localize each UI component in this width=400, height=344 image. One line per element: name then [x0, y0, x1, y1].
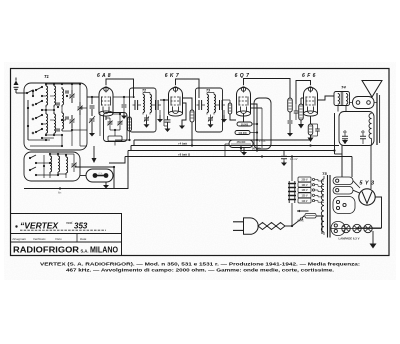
title row fields: [13, 237, 87, 241]
bus left staircase: [109, 146, 131, 164]
rectifier 5Y3: [359, 181, 375, 206]
T2 coupling wires: [113, 96, 135, 119]
svg-text:RADIOFRIGOR: RADIOFRIGOR: [13, 246, 79, 255]
6Q7 diode wires: [251, 104, 263, 148]
gang wire left: [80, 175, 86, 177]
osc box wiring: [36, 153, 77, 178]
svg-text:Disegnato: Disegnato: [13, 237, 27, 241]
antenna A1: [14, 78, 29, 95]
mains cord: [258, 223, 285, 230]
cord wires: [285, 216, 322, 234]
output transformer T4: [334, 85, 350, 106]
coil L8: [58, 154, 60, 174]
coil L1: [46, 84, 48, 107]
switch S1b: [32, 101, 43, 111]
lamps label: [339, 237, 360, 241]
svg-text:MILANO: MILANO: [90, 246, 119, 255]
6Q7 grid-cap wire: [244, 79, 291, 99]
6F6 plate wire: [318, 96, 335, 100]
shield box IFA: [254, 98, 271, 149]
tuning gang CV: [86, 169, 113, 182]
IF transformer T3 shield: [196, 88, 223, 132]
IF transformer T2 shield: [130, 88, 157, 132]
diode load R1: [287, 98, 293, 137]
bias winding: [333, 197, 355, 214]
mains plug: [233, 218, 258, 234]
svg-text:T1: T1: [44, 74, 50, 79]
switch S2b: [29, 167, 37, 176]
switch S2a: [29, 155, 37, 164]
svg-text:LAMPADE 6,3 V: LAMPADE 6,3 V: [339, 237, 360, 241]
svg-text:140 V: 140 V: [301, 189, 307, 192]
svg-text:6n: 6n: [58, 191, 62, 195]
svg-text:VERTEX (S. A. RADIOFRIGOR). —: VERTEX (S. A. RADIOFRIGOR). — Mod. n 350…: [40, 262, 361, 267]
oscillator padder box: [104, 113, 128, 142]
tube 6F6: [302, 73, 317, 116]
svg-text:6 F 6: 6 F 6: [302, 73, 316, 79]
IF transformer T3: [197, 89, 228, 128]
switch S1d: [32, 129, 43, 139]
svg-text:220 V: 220 V: [301, 180, 307, 182]
tube 6K7: [165, 73, 183, 116]
6Q7 ground arrows: [241, 148, 298, 167]
trimmer C1: [70, 90, 75, 103]
svg-text:T3: T3: [206, 89, 210, 93]
coil L2: [54, 84, 56, 107]
speaker pole: [377, 93, 380, 145]
gang wire top: [75, 166, 115, 189]
padder capacitor: [0, 0, 1, 1]
6F6 grid coupling: [294, 104, 301, 120]
6F6 grid-cap wire: [296, 81, 311, 105]
5Y3 wires: [353, 181, 382, 230]
svg-text:5 Y 3: 5 Y 3: [359, 181, 374, 187]
svg-text:+4 batt: +4 batt: [178, 141, 187, 145]
coil L5: [54, 112, 56, 135]
HT secondary winding: [333, 177, 353, 194]
svg-text:8μF: 8μF: [343, 131, 348, 134]
title VERTEX 353: [15, 221, 106, 231]
oscillator coil box: [24, 152, 80, 181]
svg-text:160 V: 160 V: [301, 185, 307, 187]
filter block: [338, 106, 374, 146]
title block box: [11, 214, 122, 256]
svg-text:110 V: 110 V: [302, 201, 308, 203]
lamps ground: [370, 231, 377, 249]
tube 6Q7: [235, 73, 251, 116]
svg-text:125 V: 125 V: [301, 196, 307, 198]
6F6 cathode parts: [308, 116, 320, 142]
trimmer C2: [70, 115, 75, 128]
title RADIOFRIGOR: [13, 246, 119, 255]
voltage-change ladder: [288, 155, 296, 226]
bus HT: [115, 139, 311, 146]
svg-text:353: 353: [74, 222, 88, 231]
svg-text:467 kHz. — Avvolgimento di cam: 467 kHz. — Avvolgimento di campo: 2000 o…: [66, 268, 334, 273]
svg-text:T5: T5: [322, 171, 327, 176]
wire T3 to 6Q7: [223, 100, 237, 120]
svg-text:20.250: 20.250: [252, 147, 261, 151]
filter ground: [0, 0, 1, 1]
svg-text:8μF: 8μF: [361, 131, 366, 134]
voltage selector: [298, 177, 324, 203]
feed wires right: [335, 113, 372, 189]
dial lamps: [342, 224, 372, 232]
6A8 bottom wiring: [100, 113, 123, 146]
svg-text:mod.: mod.: [66, 221, 73, 225]
switch S1a: [32, 87, 43, 97]
svg-text:250.000: 250.000: [237, 141, 246, 144]
electrolytic C8b: [360, 130, 366, 144]
voice coil: [350, 97, 378, 109]
coil L4: [46, 112, 48, 135]
trimmer C3: [78, 102, 83, 115]
tube 6A8: [97, 73, 113, 116]
gang feed arrow: [92, 150, 97, 163]
6A8 grid-cap wire: [106, 79, 134, 98]
caption line 2: [66, 268, 334, 273]
svg-text:10 mV: 10 mV: [290, 157, 298, 161]
caption line 1: [40, 262, 361, 267]
lamp winding: [331, 222, 345, 236]
bus screen: [128, 147, 336, 152]
svg-text:S.A.: S.A.: [81, 249, 89, 254]
IF transformer T2: [133, 89, 164, 128]
bus AVC: [125, 152, 352, 157]
6K7 plate resistor: [190, 110, 194, 122]
svg-text:T4: T4: [341, 85, 346, 90]
svg-text:“VERTEX: “VERTEX: [20, 221, 59, 231]
svg-text:C.V.: C.V.: [98, 173, 102, 175]
6K7 plate wire: [183, 98, 193, 146]
drawing frame: [11, 69, 390, 256]
coil unit T1 box: [24, 74, 87, 150]
6A8 left components: [87, 96, 99, 137]
fuse: [305, 214, 316, 219]
T5 primary taps: [0, 0, 1, 1]
coil L7: [50, 154, 52, 174]
chassis line: [24, 146, 128, 195]
svg-text:6 K 7: 6 K 7: [165, 73, 179, 79]
wire T2 to 6K7: [160, 99, 168, 126]
svg-text:Data: Data: [80, 237, 87, 241]
bus +B: [131, 141, 339, 146]
svg-text:6 A 8: 6 A 8: [97, 73, 111, 79]
power transformer T5: [321, 171, 330, 238]
grid resistor R4: [228, 103, 232, 114]
electrolytic C8a: [342, 130, 348, 144]
speaker cone: [362, 81, 382, 98]
T1 label wires: [27, 90, 34, 140]
selector arrow: [297, 210, 309, 223]
coil L3: [62, 87, 64, 107]
6K7 grid-cap wire: [176, 79, 200, 98]
resistor R3: [235, 131, 258, 135]
coil L9: [66, 155, 68, 175]
switch S1c: [32, 115, 43, 125]
6F6 grid resistor: [298, 98, 304, 129]
resistor R2: [237, 114, 258, 127]
screen resistor: [128, 112, 132, 140]
svg-text:Verificato: Verificato: [33, 237, 46, 241]
volume potentiometer: [225, 140, 253, 156]
svg-text:50.000: 50.000: [241, 124, 249, 126]
svg-text:Visto: Visto: [55, 237, 62, 241]
svg-text:T2: T2: [142, 89, 146, 93]
coil L6: [62, 111, 64, 131]
field coil: [369, 114, 372, 146]
svg-text:+8 batt Ω: +8 batt Ω: [178, 152, 191, 156]
gang ground: [103, 182, 109, 189]
lamps bus: [331, 228, 382, 230]
6K7 cathode parts: [164, 103, 186, 132]
svg-text:100.000: 100.000: [238, 133, 247, 135]
T1 inner wiring: [27, 83, 87, 147]
